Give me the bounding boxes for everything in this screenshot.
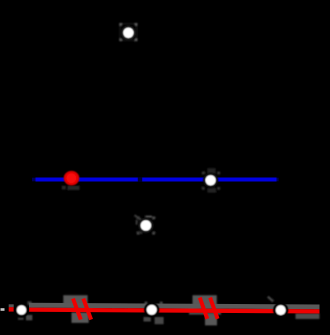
wire line PA (black construction line, invisible on black) — [21, 33, 129, 310]
white dash at far left of bottom line — [1, 308, 5, 311]
point E — [141, 220, 152, 231]
point M — [147, 305, 157, 315]
point E ring — [140, 219, 153, 232]
point D ring — [204, 174, 216, 186]
ghost line PB entering B — [268, 297, 273, 302]
wire cevian PM (black construction line, invisible on black) — [129, 33, 152, 310]
point M ring — [146, 304, 158, 316]
ghost gray blob below-right of A — [26, 315, 32, 320]
point A ring — [16, 304, 28, 316]
ghost diagonal streak at E (line BC) — [135, 215, 142, 220]
blue line CD — [36, 178, 277, 182]
blue line left end fade — [32, 178, 36, 182]
ghost square corners at M — [145, 302, 163, 305]
ghost label blob under M (right part) — [155, 317, 164, 324]
ghost square outline around point P — [120, 24, 136, 40]
red point C on blue line — [64, 171, 80, 186]
ghost line PA entering A — [27, 301, 31, 305]
ghost left dash at E — [136, 220, 138, 225]
gray band below red right of B — [296, 314, 320, 320]
gray strip under red near tick pair 2 — [189, 312, 221, 314]
wire diagonal AD (black construction line, invisible on black) — [21, 180, 211, 310]
ghost label under red point C — [62, 186, 80, 190]
point P ring — [122, 27, 134, 39]
point B — [276, 305, 286, 315]
ghost square corners at E — [137, 216, 155, 234]
blue line gap where PM crosses — [138, 177, 142, 182]
point B ring — [275, 304, 287, 316]
gray blob below tick pair 1 — [72, 313, 89, 323]
ghost label under D — [208, 188, 217, 193]
gray blob above tick pair 1 — [63, 295, 87, 305]
ghost label above D — [208, 168, 216, 174]
gray blob below tick pair 2 — [205, 314, 217, 325]
point A — [17, 305, 27, 315]
red congruence tick marks pair 1 — [73, 299, 81, 320]
ghost label blob under M (left part) — [144, 317, 151, 322]
point P — [123, 28, 133, 38]
bottom line gray ghost band — [29, 303, 320, 310]
point D — [205, 175, 215, 185]
ghost label under A — [18, 318, 24, 320]
red bottom line AB — [29, 308, 320, 314]
ghost mark below-left of E — [139, 231, 143, 234]
wire line PB (black construction line, invisible on black) — [129, 33, 282, 310]
blue line right end fade — [277, 178, 279, 182]
red congruence tick marks pair 2 — [200, 298, 208, 319]
wire diagonal BC (black construction line, invisible on black) — [71, 179, 281, 310]
red stub left of A — [9, 304, 14, 307]
gray blob above tick pair 2 — [193, 295, 217, 306]
ghost square corners at D — [202, 172, 220, 190]
ghost square corners at P — [119, 23, 137, 41]
ghost top dash at E — [145, 216, 152, 218]
